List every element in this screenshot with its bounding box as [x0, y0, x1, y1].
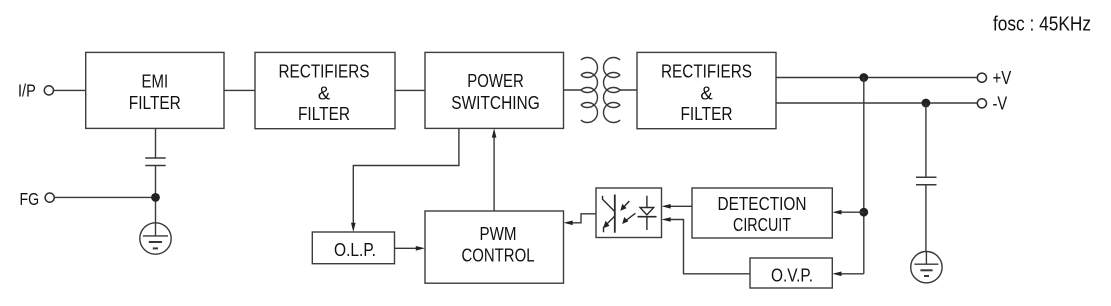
svg-text:RECTIFIERS: RECTIFIERS — [661, 61, 752, 82]
optocoupler U1 — [596, 188, 662, 238]
LED — [638, 196, 657, 230]
block O.L.P. — [312, 232, 394, 264]
wire capacitor to FG junction and ground — [155, 166, 157, 223]
svg-text:PWM: PWM — [480, 223, 517, 244]
junction dot FG — [151, 193, 160, 202]
wire transformer secondary to RECTIFIERS2 — [620, 89, 638, 91]
svg-text:-V: -V — [993, 93, 1008, 113]
wire optocoupler to PWM CONTROL with arrow — [570, 214, 596, 223]
wire +V branch vertical to OVP level — [863, 78, 865, 274]
terminal -V — [977, 99, 986, 108]
svg-text:FILTER: FILTER — [681, 103, 733, 124]
wire OLP to PWM CONTROL with arrow — [395, 247, 418, 249]
light arrows — [623, 201, 630, 209]
wire I/P to EMI — [54, 89, 86, 91]
block PWM CONTROL — [425, 211, 564, 283]
wire RECTIFIERS1 to POWER SWITCHING — [395, 89, 425, 91]
junction dot on +V rail — [859, 73, 868, 82]
svg-text:CONTROL: CONTROL — [462, 244, 535, 265]
block EMI FILTER — [86, 52, 224, 128]
wire EMI to RECTIFIERS1 — [224, 89, 255, 91]
wire capacitor to ground — [925, 185, 927, 252]
wire -V branch vertical to capacitor — [925, 103, 927, 177]
wire DETECTION to optocoupler with arrow — [668, 205, 692, 207]
svg-text:I/P: I/P — [18, 80, 36, 100]
wire branch into OVP — [840, 273, 864, 275]
wire branch into DETECTION CIRCUIT — [840, 211, 864, 213]
wire PWM CONTROL up into POWER SWITCHING with arrow — [493, 136, 495, 212]
phototransistor — [603, 195, 615, 233]
ground (FG, protective earth) — [140, 223, 171, 254]
wire -V rail — [776, 102, 977, 104]
terminal I/P — [44, 86, 53, 95]
block RECTIFIERS & FILTER 2 — [637, 52, 776, 128]
block DETECTION CIRCUIT — [692, 188, 832, 238]
svg-text:&: & — [700, 82, 713, 103]
svg-text:FILTER: FILTER — [298, 103, 350, 124]
terminal +V — [977, 73, 986, 82]
wire POWER SWITCHING to OLP (down, left, down with arrow) — [353, 128, 459, 224]
svg-text:FILTER: FILTER — [129, 92, 181, 113]
block RECTIFIERS & FILTER 1 — [255, 52, 395, 128]
transformer T1 secondary winding — [604, 58, 621, 123]
svg-text:EMI: EMI — [142, 71, 169, 92]
svg-text:POWER: POWER — [467, 70, 524, 91]
junction dot on -V rail — [922, 99, 931, 108]
svg-text:FG: FG — [20, 189, 40, 209]
svg-text:fosc : 45KHz: fosc : 45KHz — [993, 14, 1091, 36]
block POWER SWITCHING — [425, 52, 564, 128]
wire EMI bottom to capacitor — [155, 128, 157, 158]
terminal FG — [45, 193, 54, 202]
block O.V.P. — [750, 258, 832, 288]
junction dot on +V branch — [859, 208, 868, 217]
svg-text:O.V.P.: O.V.P. — [771, 265, 813, 286]
wire +V rail — [776, 77, 977, 79]
svg-text:SWITCHING: SWITCHING — [451, 92, 540, 113]
capacitor C2 — [916, 177, 937, 185]
svg-text:DETECTION: DETECTION — [718, 193, 807, 214]
capacitor C1 — [145, 158, 165, 166]
svg-text:RECTIFIERS: RECTIFIERS — [279, 61, 370, 82]
svg-text:CIRCUIT: CIRCUIT — [733, 214, 791, 235]
svg-text:+V: +V — [993, 68, 1012, 88]
transformer T1 primary winding — [581, 58, 598, 123]
wire OVP to optocoupler (left, up, left with arrow) — [668, 220, 750, 274]
wire FG to junction — [55, 196, 156, 198]
svg-text:O.L.P.: O.L.P. — [334, 239, 376, 260]
ground (output, protective earth) — [911, 252, 942, 283]
wire POWER SWITCHING to transformer primary — [564, 89, 582, 91]
svg-text:&: & — [318, 82, 331, 103]
